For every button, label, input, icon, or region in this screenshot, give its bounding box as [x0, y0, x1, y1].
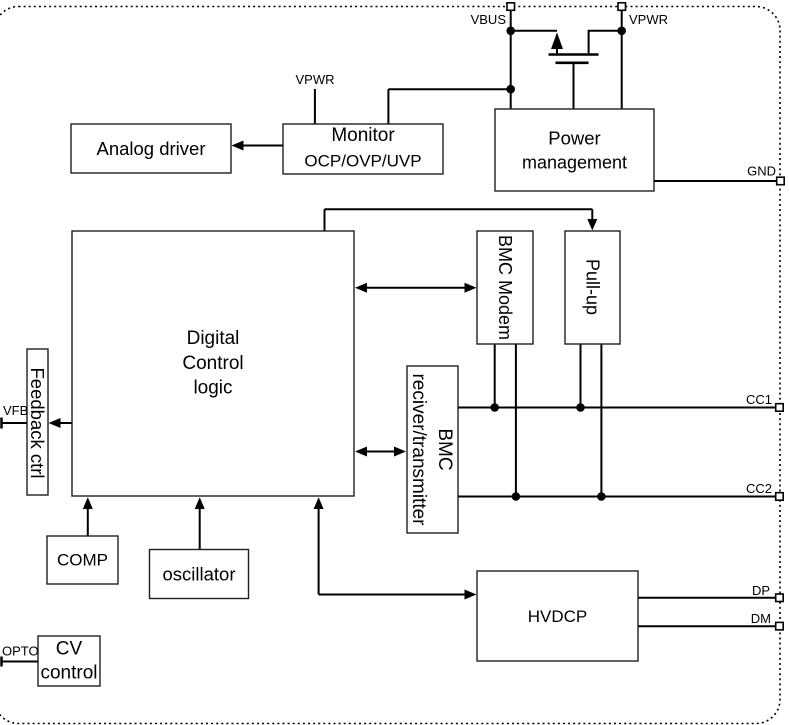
block Digital Control logic [72, 231, 354, 496]
block CV control [38, 636, 100, 686]
svg-text:DP: DP [752, 583, 770, 598]
svg-text:BMC: BMC [434, 428, 455, 470]
wire VPWR stub into monitor [314, 89, 316, 124]
wire VBUS vertical [510, 10, 512, 109]
svg-text:HVDCP: HVDCP [528, 607, 588, 626]
svg-text:control: control [40, 663, 97, 684]
junction node pull-up/CC2 [597, 492, 606, 501]
block oscillator [150, 550, 249, 599]
svg-text:Analog driver: Analog driver [96, 138, 205, 159]
pin CC1 [746, 392, 783, 411]
block Analog driver [71, 124, 231, 173]
wire pull-up to CC2 [600, 345, 602, 497]
block BMC reciver/transmitter [407, 366, 458, 533]
pin VPWR [618, 3, 668, 27]
arrow digital to feedback ctrl [49, 418, 73, 428]
block HVDCP [477, 571, 638, 661]
block Pull-up [565, 231, 620, 344]
wire FET gate to power management [573, 64, 575, 110]
wire DM [639, 625, 777, 627]
wire BMC modem to CC1 [494, 345, 496, 408]
double arrow digital <-> BMC receiver [355, 447, 406, 457]
svg-text:VFB: VFB [3, 403, 28, 418]
wire DP [639, 597, 777, 599]
junction node on VBUS at monitor tap [506, 85, 515, 94]
pin VBUS [471, 3, 515, 27]
junction node on VPWR at FET [617, 27, 626, 36]
svg-text:Monitor: Monitor [331, 125, 395, 146]
block Monitor OCP/OVP/UVP [283, 124, 443, 174]
junction node on VBUS at FET [506, 27, 515, 36]
svg-text:Digital: Digital [187, 328, 240, 349]
label VPWR (monitor stub) [296, 72, 335, 87]
svg-text:VPWR: VPWR [296, 72, 335, 87]
wire VFB [2, 418, 28, 429]
wire CC2 [459, 496, 777, 498]
block Feedback ctrl [27, 349, 48, 495]
wire digital logic to pull-up (arrow down) [325, 209, 598, 231]
svg-text:VBUS: VBUS [471, 12, 507, 27]
svg-text:Feedback ctrl: Feedback ctrl [27, 367, 48, 478]
svg-text:CV: CV [56, 639, 83, 660]
arrow oscillator to digital [195, 497, 205, 549]
wire pull-up to CC1 [580, 345, 582, 408]
junction node modem/CC1 [490, 403, 499, 412]
wire GND from power management [654, 180, 777, 182]
svg-text:CC1: CC1 [746, 392, 772, 407]
wire digital to HVDCP (branch with up arrow and right arrow) [314, 497, 477, 599]
block BMC Modem [477, 231, 533, 344]
svg-text:management: management [522, 153, 627, 173]
svg-text:COMP: COMP [57, 551, 108, 570]
svg-text:Control: Control [182, 353, 243, 374]
svg-text:VPWR: VPWR [629, 12, 668, 27]
wire CC1 [459, 407, 777, 409]
pin CC2 [746, 481, 783, 500]
pin label OPTO [2, 644, 39, 659]
svg-text:DM: DM [751, 611, 771, 626]
junction node modem/CC2 [512, 492, 521, 501]
svg-text:BMC Modem: BMC Modem [495, 235, 515, 340]
block Power management [495, 109, 654, 191]
junction node pull-up/CC1 [576, 403, 585, 412]
arrow monitor to analog driver [232, 141, 284, 151]
transistor Q1 pass FET between VBUS and VPWR [511, 30, 622, 63]
wire OPTO into CV control [2, 657, 39, 667]
wire VPWR vertical [621, 10, 623, 109]
pin DP [752, 583, 783, 602]
pin label VFB [3, 403, 28, 418]
svg-text:GND: GND [747, 164, 776, 179]
pin GND [747, 164, 784, 185]
svg-text:Pull-up: Pull-up [583, 259, 603, 315]
wire BMC modem to CC2 [515, 345, 517, 497]
svg-text:OPTO: OPTO [2, 644, 39, 659]
svg-text:CC2: CC2 [746, 481, 772, 496]
svg-text:oscillator: oscillator [163, 564, 236, 585]
wire monitor to VBUS node [388, 89, 510, 124]
svg-text:reciver/transmitter: reciver/transmitter [408, 373, 429, 526]
pin DM [751, 611, 783, 630]
svg-text:logic: logic [193, 378, 232, 399]
arrow COMP to digital [83, 497, 93, 536]
block COMP [47, 536, 118, 584]
double arrow digital <-> BMC modem [355, 283, 477, 293]
svg-text:Power: Power [548, 128, 600, 149]
svg-text:OCP/OVP/UVP: OCP/OVP/UVP [304, 152, 421, 171]
